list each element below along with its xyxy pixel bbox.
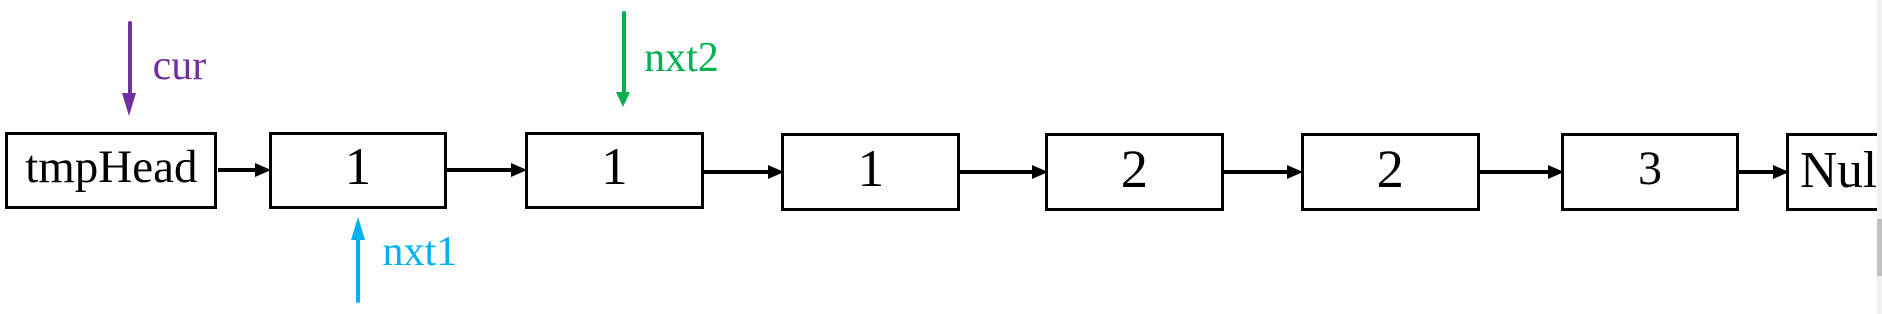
arrow N2 to N3 xyxy=(704,170,769,174)
label nxt2 xyxy=(644,35,719,82)
arrow N4 to N5 xyxy=(1224,170,1288,174)
node box N5 value 2 xyxy=(1301,133,1481,211)
arrow N6 to Null xyxy=(1739,170,1773,174)
node box Null xyxy=(1786,133,1882,211)
arrow N1 to N2 xyxy=(447,168,512,172)
node box N6 value 3 xyxy=(1561,133,1740,211)
label nxt1 xyxy=(383,229,458,276)
node box N1 value 1 xyxy=(269,132,448,210)
pointer arrow nxt2 (green, down) xyxy=(622,11,626,93)
arrow N3 to N4 xyxy=(960,170,1032,174)
node box N4 value 2 xyxy=(1045,133,1225,211)
label cur xyxy=(153,43,207,90)
scrollbar track xyxy=(1877,0,1882,314)
arrow tmpHead to N1 xyxy=(218,168,257,172)
node box tmpHead xyxy=(5,132,217,210)
node box N3 value 1 xyxy=(781,133,960,211)
pointer arrow nxt1 (cyan, up) xyxy=(356,240,360,303)
pointer arrow cur (purple, down) xyxy=(128,21,132,96)
arrow N5 to N6 xyxy=(1480,170,1549,174)
scrollbar thumb xyxy=(1877,219,1882,276)
node box N2 value 1 xyxy=(525,132,704,210)
